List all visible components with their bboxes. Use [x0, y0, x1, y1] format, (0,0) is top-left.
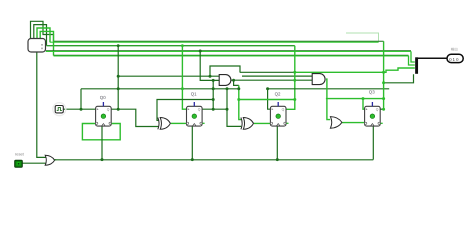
svg-text:Q0: Q0 [100, 95, 106, 100]
svg-text:Q2: Q2 [275, 92, 281, 97]
svg-text:输出: 输出 [451, 47, 459, 51]
svg-text:0 1 0: 0 1 0 [449, 57, 459, 62]
svg-text:Q3: Q3 [369, 90, 375, 95]
svg-text:Q1: Q1 [191, 92, 197, 97]
svg-text:Q: Q [107, 108, 110, 112]
svg-text:Q: Q [376, 108, 379, 112]
svg-text:Q: Q [282, 108, 285, 112]
svg-text:reset: reset [15, 152, 25, 157]
svg-text:Q: Q [198, 108, 201, 112]
